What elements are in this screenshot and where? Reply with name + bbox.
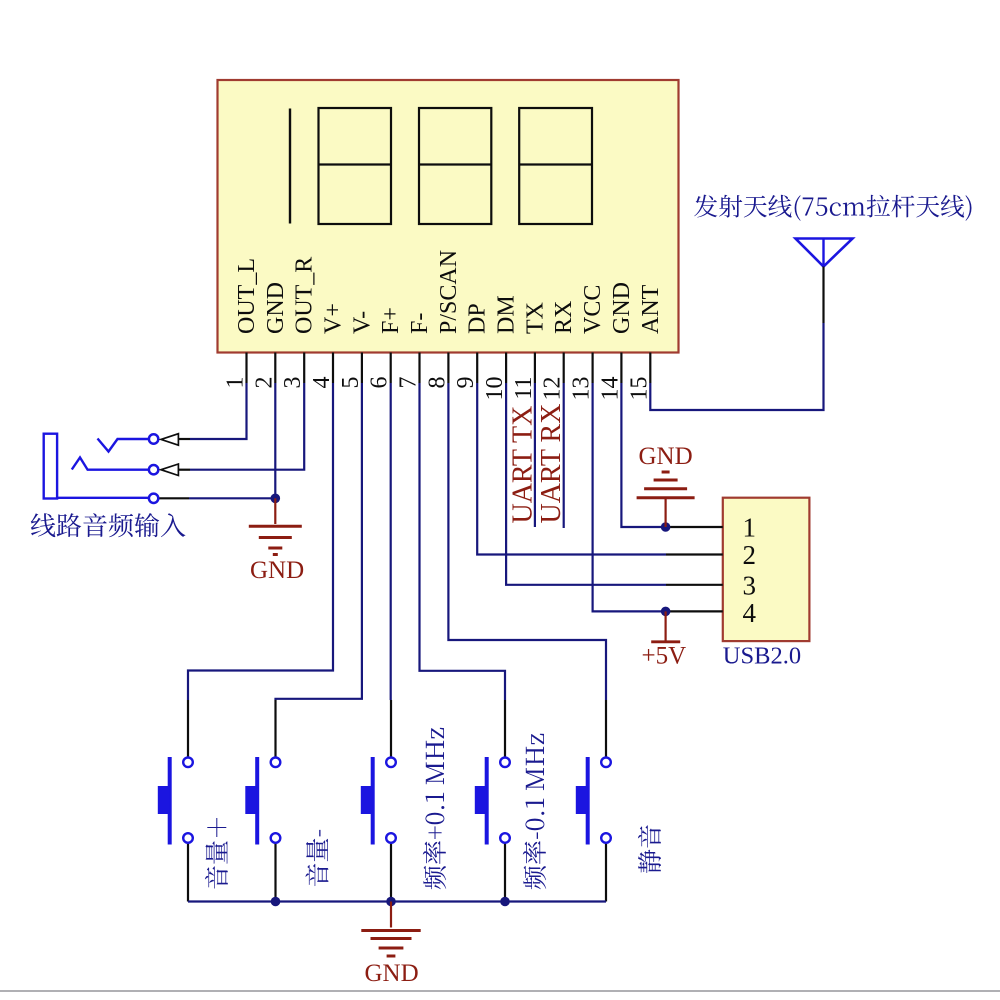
label +5V — [642, 643, 687, 670]
pin 10 stub — [505, 353, 507, 384]
pushbutton S1 volume+ — [158, 700, 193, 902]
USB pin number 1 — [743, 513, 757, 543]
svg-text:V+: V+ — [321, 303, 347, 334]
svg-text:11: 11 — [511, 377, 537, 400]
pin label DM — [494, 295, 520, 334]
pin label TX — [522, 302, 548, 334]
svg-text:14: 14 — [597, 377, 623, 401]
ground GND (USB) — [637, 472, 695, 527]
jack tip contact — [98, 439, 149, 452]
svg-text:DP: DP — [465, 303, 491, 334]
input arrow left channel — [161, 434, 178, 446]
wire pin11 TX stub — [534, 383, 536, 527]
pin 6 stub — [390, 353, 392, 384]
svg-text:2: 2 — [743, 540, 757, 570]
wire jack sleeve to GND junction — [189, 497, 275, 499]
pin label RX — [551, 301, 577, 334]
svg-text:UART TX: UART TX — [507, 406, 538, 524]
junction node USB pin1 GND — [661, 522, 671, 532]
svg-text:OUT_L: OUT_L — [234, 258, 260, 334]
pin number 14 — [597, 377, 623, 401]
wire pin15 ANT to antenna — [650, 323, 823, 410]
pin label V- — [349, 311, 375, 334]
svg-text:USB2.0: USB2.0 — [723, 643, 801, 670]
pin 14 stub — [620, 353, 622, 384]
USB pin 4 stub — [666, 610, 723, 612]
display digit 8 outline 3 — [419, 108, 491, 224]
pin 15 stub — [649, 353, 651, 384]
net label UART RX — [536, 404, 567, 524]
svg-text:2: 2 — [251, 377, 277, 389]
pin 2 stub — [274, 353, 276, 384]
pin 11 stub — [534, 353, 536, 384]
jack ring pin stub — [178, 469, 190, 471]
svg-text:DM: DM — [494, 295, 520, 334]
svg-text:15: 15 — [626, 377, 652, 401]
wire pin8 P/SCAN to button S5 — [448, 383, 606, 700]
photo edge line — [0, 990, 1000, 992]
USB pin 3 stub — [666, 584, 723, 586]
svg-text:GND: GND — [639, 443, 693, 470]
junction node USB pin4 +5V — [661, 607, 671, 617]
svg-text:UART RX: UART RX — [536, 404, 567, 524]
jack sleeve terminal circle — [149, 494, 158, 503]
svg-text:OUT_R: OUT_R — [292, 257, 318, 334]
display digit 8 outline 2 — [319, 108, 392, 224]
wire pin3 OUT_R to jack ring — [190, 383, 304, 470]
pin number 4 — [309, 377, 335, 389]
pin number 9 — [453, 377, 479, 389]
pin 9 stub — [476, 353, 478, 384]
svg-text:3: 3 — [743, 571, 757, 601]
pin number 3 — [280, 377, 306, 389]
USB pin 2 stub — [666, 553, 723, 555]
wire pin7 F- to button S4 — [420, 383, 506, 700]
pin number 1 — [223, 377, 249, 389]
pin label GND — [263, 282, 289, 334]
svg-text:TX: TX — [522, 302, 548, 334]
svg-text:V-: V- — [349, 311, 375, 334]
USB pin number 2 — [743, 540, 757, 570]
wire pin2 GND down to junction — [274, 383, 276, 498]
label volume+ — [205, 818, 228, 889]
pin 12 stub — [563, 353, 565, 384]
pin label F+ — [378, 307, 404, 334]
pin number 12 — [540, 377, 566, 401]
svg-text:GND: GND — [263, 282, 289, 334]
pin label GND — [609, 282, 635, 334]
label freq -0.1MHz — [523, 734, 546, 890]
wire button common bus — [188, 900, 606, 902]
svg-text:F+: F+ — [378, 307, 404, 334]
svg-text:4: 4 — [309, 377, 335, 389]
pin number 11 — [511, 377, 537, 400]
label volume- — [305, 830, 328, 886]
svg-text:3: 3 — [280, 377, 306, 389]
pin label F- — [407, 313, 433, 334]
junction node bus x=391 — [386, 897, 396, 907]
svg-text:9: 9 — [453, 377, 479, 389]
svg-text:VCC: VCC — [580, 285, 606, 334]
USB pin 1 stub — [666, 526, 723, 528]
pin label OUT_R — [292, 257, 318, 334]
USB pin number 3 — [743, 571, 757, 601]
svg-text:13: 13 — [569, 377, 595, 401]
label transmit antenna 75cm — [694, 195, 971, 221]
svg-text:7: 7 — [396, 377, 422, 389]
wire pin4 V+ to button S1 — [188, 383, 333, 700]
svg-text:F-: F- — [407, 313, 433, 334]
audio jack J1 body — [44, 434, 149, 499]
pin number 8 — [424, 377, 450, 389]
wire pin5 V- to button S2 — [276, 383, 362, 700]
label mute — [638, 825, 661, 873]
pin number 15 — [626, 377, 652, 401]
wire pin12 RX stub — [563, 383, 565, 528]
label freq +0.1MHz — [423, 728, 446, 890]
svg-text:12: 12 — [540, 377, 566, 401]
wire pin1 OUT_L to jack tip — [190, 383, 247, 439]
pin label V+ — [321, 303, 347, 334]
pin number 5 — [338, 377, 364, 389]
pin 4 stub — [332, 353, 334, 384]
FM transmitter module U1 body — [218, 80, 679, 353]
pin number 13 — [569, 377, 595, 401]
wire pin6 F+ to button S3 — [390, 383, 392, 700]
jack tip pin stub — [178, 438, 190, 440]
wire pin9 DP to USB pin2 — [477, 383, 666, 555]
pushbutton S3 freq+ — [361, 700, 396, 902]
svg-text:1: 1 — [223, 377, 249, 389]
USB pin number 4 — [743, 598, 757, 628]
pin label P/SCAN — [436, 250, 462, 334]
junction node bus x=275 — [271, 897, 281, 907]
pin 5 stub — [361, 353, 363, 384]
ground GND (buttons) — [361, 902, 420, 957]
svg-text:1: 1 — [743, 513, 757, 543]
svg-text:P/SCAN: P/SCAN — [436, 250, 462, 334]
label USB2.0 — [723, 643, 801, 670]
svg-text:GND: GND — [250, 557, 304, 584]
jack tip terminal circle — [149, 434, 158, 443]
svg-text:8: 8 — [424, 377, 450, 389]
svg-text:5: 5 — [338, 377, 364, 389]
label GND (audio jack) — [250, 557, 304, 584]
svg-text:ANT: ANT — [638, 284, 664, 334]
pin number 2 — [251, 377, 277, 389]
USB connector body — [723, 498, 810, 641]
pin number 10 — [482, 376, 508, 400]
input arrow right channel — [161, 464, 178, 476]
pushbutton S4 freq- — [475, 700, 510, 902]
wire pin14 GND to USB pin1 — [621, 383, 665, 527]
pin label VCC — [580, 285, 606, 334]
pushbutton S5 mute — [576, 700, 611, 902]
antenna ANT1 — [796, 239, 853, 324]
wire pin13 VCC to USB pin4 — [593, 383, 666, 611]
svg-text:GND: GND — [609, 282, 635, 334]
pin number 7 — [396, 377, 422, 389]
pin 3 stub — [303, 353, 305, 384]
jack ring terminal circle — [149, 465, 158, 474]
jack ring contact — [72, 458, 149, 470]
junction node jack GND — [271, 494, 281, 504]
display digit 1 segment — [289, 109, 291, 224]
svg-text:RX: RX — [551, 301, 577, 334]
pushbutton S2 volume- — [245, 700, 280, 902]
pin 8 stub — [447, 353, 449, 384]
pin label OUT_L — [234, 258, 260, 334]
svg-text:10: 10 — [482, 376, 508, 400]
pin number 6 — [367, 377, 393, 389]
pin 1 stub — [245, 353, 247, 384]
svg-text:+5V: +5V — [642, 643, 687, 670]
net label UART TX — [507, 406, 538, 524]
label line audio input — [31, 513, 186, 537]
label GND (USB) — [639, 443, 693, 470]
ground GND (audio jack) — [249, 498, 302, 554]
junction node bus x=505 — [500, 897, 510, 907]
pin label ANT — [638, 284, 664, 334]
wire pin10 DM to USB pin3 — [506, 383, 666, 585]
display digit 8 outline 4 — [519, 108, 592, 224]
jack sleeve pin stub — [159, 497, 189, 499]
svg-text:GND: GND — [365, 960, 419, 987]
power +5V symbol — [651, 611, 680, 641]
pin 7 stub — [418, 353, 420, 384]
label GND (buttons) — [365, 960, 419, 987]
pin 13 stub — [591, 353, 593, 384]
pin label DP — [465, 303, 491, 334]
svg-text:4: 4 — [743, 598, 757, 628]
svg-text:6: 6 — [367, 377, 393, 389]
